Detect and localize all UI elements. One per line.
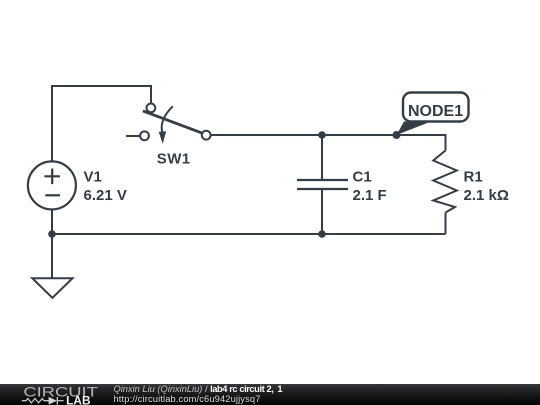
footer text line 1: author and title <box>114 385 283 394</box>
switch SW1 right terminal circle <box>202 131 211 140</box>
switch SW1 actuation arc <box>162 106 173 132</box>
svg-text:C1: C1 <box>353 169 372 186</box>
svg-text:NODE1: NODE1 <box>408 103 463 120</box>
resistor R1 bottom lead wire <box>445 213 447 235</box>
footer text line 2: url <box>114 395 261 404</box>
voltage source V1 (circle body) <box>28 161 76 209</box>
wire: switch SW1 right terminal to top-right corner, down to resistor R1 <box>211 135 446 151</box>
node NODE1 dot <box>393 131 401 139</box>
svg-text:6.21 V: 6.21 V <box>84 187 127 204</box>
V1 plus sign <box>44 169 60 185</box>
capacitor C1 top plate <box>297 179 348 181</box>
switch SW1 left throw lead wire <box>126 135 141 137</box>
capacitor C1 bottom plate <box>297 188 348 190</box>
switch SW1 pivot terminal circle <box>147 104 156 113</box>
svg-text:R1: R1 <box>464 169 483 186</box>
switch SW1 arrow head <box>159 131 167 143</box>
switch SW1 left throw terminal circle <box>140 131 149 140</box>
svg-text:V1: V1 <box>84 169 102 186</box>
switch SW1 blade <box>143 111 203 133</box>
svg-text:2.1 F: 2.1 F <box>353 187 387 204</box>
capacitor C1 bottom lead wire <box>321 190 323 234</box>
CircuitLab logo <box>0 384 110 405</box>
wire: V1 bottom to ground <box>51 209 53 278</box>
bottom ground rail wire <box>52 233 446 235</box>
junction dot at capacitor C1 top <box>318 131 326 139</box>
junction dot at V1 bottom <box>48 230 56 238</box>
svg-text:LAB: LAB <box>66 396 90 405</box>
ground symbol <box>32 278 72 298</box>
wire: V1 top terminal up and across to switch SW1 pivot <box>52 86 151 162</box>
junction dot at capacitor C1 bottom <box>318 230 326 238</box>
node NODE1 callout pointer <box>397 122 432 136</box>
V1 minus sign <box>45 194 60 196</box>
resistor R1 zigzag body <box>433 151 457 213</box>
capacitor C1 top lead wire <box>321 135 323 180</box>
svg-text:SW1: SW1 <box>157 150 191 167</box>
svg-text:2.1 kΩ: 2.1 kΩ <box>464 187 509 204</box>
footer bar <box>0 384 540 405</box>
node NODE1 callout box <box>403 93 469 122</box>
